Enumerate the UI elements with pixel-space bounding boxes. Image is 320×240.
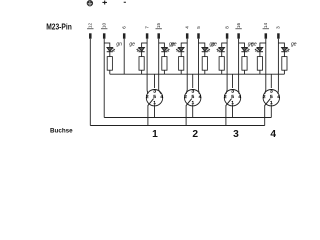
wire pin 5 down to socket 2	[198, 39, 200, 90]
LED arrows	[207, 48, 210, 51]
socket circle 2	[185, 90, 201, 106]
pin 4 terminal pad	[186, 33, 189, 38]
wire pin 8 down to socket 3	[226, 39, 228, 90]
resistor	[282, 57, 287, 71]
LED chain branch from x=238.6	[239, 42, 245, 44]
LED chain branch from x=198.5	[199, 42, 205, 44]
svg-text:4: 4	[277, 94, 280, 100]
pin 6 terminal pad	[123, 33, 126, 38]
svg-text:2: 2	[184, 94, 187, 100]
wire pin 7 down to socket 1	[146, 39, 148, 90]
socket 1 pin numbers	[146, 88, 164, 106]
svg-text:ge: ge	[129, 42, 135, 48]
resistor	[179, 57, 184, 71]
wire pin 4 down to socket 2	[186, 39, 188, 90]
svg-text:4: 4	[238, 94, 241, 100]
resistor	[242, 57, 247, 71]
socket 3 PE diagonal to pin 5	[226, 99, 232, 106]
LED arrows	[167, 48, 170, 51]
pin 5 terminal pad	[197, 33, 200, 38]
svg-text:4: 4	[160, 94, 163, 100]
LED chain branch from x=187.2	[181, 42, 187, 44]
resistor	[139, 57, 144, 71]
plus symbol	[102, 1, 107, 5]
pin 3 terminal pad	[277, 33, 280, 38]
PE earth symbol	[87, 0, 93, 6]
socket 1 PE diagonal to pin 5	[148, 99, 154, 106]
PE bus	[90, 125, 264, 127]
svg-text:3: 3	[233, 129, 239, 137]
socket 2 0V stub to pin 3	[192, 74, 194, 88]
pin 12 underline	[87, 28, 93, 30]
svg-text:4: 4	[199, 94, 202, 100]
pin 7 terminal pad	[146, 33, 149, 38]
svg-text:5: 5	[196, 26, 201, 29]
socket 4 PE diagonal to pin 5	[265, 99, 271, 106]
LED diode	[178, 47, 184, 51]
svg-text:10: 10	[102, 23, 107, 29]
wire pin 16 down to socket 3	[238, 39, 240, 90]
svg-text:2: 2	[263, 94, 266, 100]
svg-text:12: 12	[88, 23, 93, 29]
socket 3 plus stub from pin 1	[232, 104, 234, 117]
resistor	[202, 57, 207, 71]
socket 2 pin numbers	[184, 88, 202, 106]
LED diode	[242, 47, 248, 51]
resistor	[257, 57, 262, 71]
wire pin 3 down to socket 4	[277, 39, 279, 90]
resistor	[162, 57, 167, 71]
svg-text:2: 2	[224, 94, 227, 100]
LED diode	[257, 47, 263, 51]
socket 2 PE diagonal to pin 5	[186, 99, 192, 106]
LED arrows	[112, 48, 115, 51]
svg-text:2: 2	[192, 129, 198, 137]
pin 16 terminal pad	[237, 33, 240, 38]
LED arrows	[217, 48, 220, 51]
svg-text:7: 7	[144, 26, 149, 29]
svg-text:gn: gn	[116, 42, 122, 48]
svg-text:6: 6	[122, 26, 127, 29]
svg-text:3: 3	[276, 26, 281, 29]
svg-text:3: 3	[153, 88, 156, 94]
LED arrows	[247, 48, 250, 51]
resistor	[219, 57, 224, 71]
socket circle 1	[146, 90, 162, 106]
wire pin12 PE down to PE bus	[89, 39, 91, 126]
LED diode	[282, 47, 288, 51]
LED chain branch from x=147.1	[142, 42, 148, 44]
svg-text:ge: ge	[169, 42, 175, 48]
pin 14 underline	[263, 28, 269, 30]
svg-text:4: 4	[270, 129, 276, 137]
socket circle 3	[224, 90, 240, 106]
wire pin10 plus down to plus bus	[103, 39, 105, 118]
LED diode	[162, 47, 168, 51]
pin 10 underline	[101, 28, 107, 30]
minus symbol	[124, 1, 126, 3]
pin 16 underline	[235, 28, 241, 30]
pin 12 terminal pad	[89, 33, 92, 38]
LED arrows	[287, 48, 290, 51]
wire pin 15 down to socket 1	[158, 39, 160, 90]
wire pin 14 down to socket 4	[265, 39, 267, 90]
pin 14 terminal pad	[265, 33, 268, 38]
svg-text:16: 16	[236, 23, 241, 29]
pin 8 terminal pad	[226, 33, 229, 38]
0V rail	[110, 73, 285, 75]
LED chain branch from x=158.7	[159, 42, 165, 44]
svg-text:ge: ge	[210, 42, 216, 48]
svg-text:2: 2	[146, 94, 149, 100]
LED diode	[107, 47, 113, 51]
LED arrows	[137, 48, 140, 51]
LED arrows	[176, 48, 179, 51]
socket 1 0V stub to pin 3	[154, 74, 156, 88]
svg-text:3: 3	[191, 88, 194, 94]
pin 15 terminal pad	[157, 33, 160, 38]
svg-text:8: 8	[224, 26, 229, 29]
plus bus	[104, 117, 271, 119]
socket 3 0V stub to pin 3	[232, 74, 234, 88]
LED chain branch from x=104.2	[104, 42, 110, 44]
svg-text:14: 14	[263, 23, 268, 29]
pin 10 terminal pad	[103, 33, 106, 38]
svg-text:3: 3	[270, 88, 273, 94]
svg-text:4: 4	[185, 26, 190, 29]
socket 1 plus stub from pin 1	[154, 104, 156, 117]
svg-text:3: 3	[231, 88, 234, 94]
socket 4 plus stub from pin 1	[270, 104, 272, 117]
LED chain branch from x=227.1	[222, 42, 227, 44]
svg-text:15: 15	[156, 23, 161, 29]
svg-text:Buchse: Buchse	[50, 128, 73, 135]
LED diode	[139, 47, 145, 51]
pin 15 underline	[156, 28, 162, 30]
svg-text:ge: ge	[291, 42, 297, 48]
resistor	[107, 57, 112, 71]
LED diode	[202, 47, 208, 51]
wire pin6 minus down to 0V rail	[123, 39, 125, 74]
socket 4 0V stub to pin 3	[270, 74, 272, 88]
LED diode	[219, 47, 225, 51]
LED chain branch from x=278.4	[278, 42, 284, 44]
svg-text:1: 1	[152, 129, 158, 137]
svg-text:ge: ge	[248, 42, 254, 48]
socket 2 plus stub from pin 1	[192, 104, 194, 117]
LED arrows	[255, 48, 258, 51]
socket 4 pin numbers	[263, 88, 281, 106]
LED chain branch from x=265.8	[260, 42, 266, 44]
svg-text:M23-Pin: M23-Pin	[46, 21, 72, 31]
socket circle 4	[263, 90, 279, 106]
socket 3 pin numbers	[224, 88, 242, 106]
